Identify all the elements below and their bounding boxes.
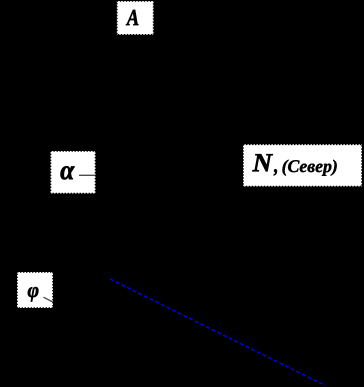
wire: blue dashed direction line bbox=[110, 279, 326, 386]
label box alpha (angle) bbox=[51, 151, 96, 194]
label box N (Sever / North) bbox=[243, 144, 362, 186]
leader line from alpha bbox=[79, 174, 95, 176]
leader line from phi bbox=[44, 297, 53, 302]
label box phi (latitude) bbox=[17, 272, 53, 308]
label box A (point A) bbox=[117, 1, 154, 35]
